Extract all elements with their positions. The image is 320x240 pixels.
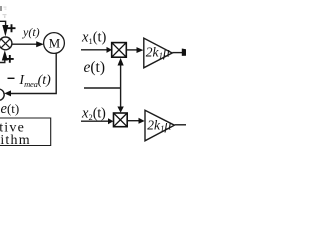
wire from motor down and left (Imea feedback) bbox=[11, 53, 57, 94]
node circle cut at left edge bbox=[0, 89, 4, 100]
wire e(t) to multipliers (tee up and down) bbox=[84, 87, 121, 89]
wire upper gain to output bbox=[172, 52, 182, 54]
gain amplifier upper 2k1u bbox=[144, 38, 172, 68]
wire x2 into lower multiplier bbox=[81, 120, 109, 122]
arrowhead down into summing junction bbox=[2, 25, 8, 37]
lower multiplier box bbox=[114, 113, 128, 127]
wire top input into summing junction bbox=[0, 21, 6, 26]
wire down branch bbox=[120, 88, 122, 108]
svg-text:e(t): e(t) bbox=[84, 59, 106, 76]
wire upper multiplier to gain bbox=[127, 49, 138, 51]
wire up branch bbox=[120, 65, 122, 89]
svg-text:2k1μ: 2k1μ bbox=[146, 45, 170, 62]
arrowhead bbox=[108, 118, 113, 124]
arrowhead into lower gain bbox=[139, 118, 145, 124]
svg-text:e(t): e(t) bbox=[1, 101, 20, 117]
svg-text:x1(t): x1(t) bbox=[81, 30, 107, 47]
wire bottom input into summing junction bbox=[0, 61, 5, 63]
arrowhead into motor bbox=[36, 41, 44, 47]
arrowhead left into cut node bbox=[4, 90, 11, 96]
upper multiplier box bbox=[112, 43, 127, 58]
minus sign bbox=[8, 78, 15, 79]
arrowhead bbox=[107, 47, 113, 53]
plus sign bottom bbox=[6, 55, 14, 63]
wire lower multiplier to gain bbox=[127, 120, 139, 122]
svg-text:2k1μ: 2k1μ bbox=[147, 118, 171, 135]
gain amplifier lower 2k1u bbox=[145, 110, 174, 141]
arrowhead down into lower multiplier bbox=[117, 107, 123, 113]
svg-text:x2(t): x2(t) bbox=[81, 105, 106, 122]
svg-text:Algorithm: Algorithm bbox=[0, 133, 31, 148]
wire x1 into upper multiplier bbox=[81, 49, 107, 51]
wire y(t) from summing junction to motor bbox=[12, 43, 37, 45]
adaptive algorithm box (cut at left edge) bbox=[0, 118, 51, 148]
arrowhead up into summing junction bbox=[2, 50, 8, 60]
svg-text:M: M bbox=[49, 35, 61, 50]
svg-text:y(t): y(t) bbox=[22, 25, 40, 39]
plus sign top bbox=[8, 24, 16, 32]
summing junction (multiplier circle) bbox=[0, 37, 12, 50]
arrowhead up into upper multiplier bbox=[118, 58, 124, 66]
wire lower gain to output bbox=[175, 124, 186, 126]
arrowhead cut at right edge bbox=[182, 49, 186, 56]
faint grey crop fragment top-left bbox=[0, 6, 7, 18]
motor M bbox=[44, 33, 65, 54]
arrowhead into upper gain bbox=[137, 47, 144, 53]
